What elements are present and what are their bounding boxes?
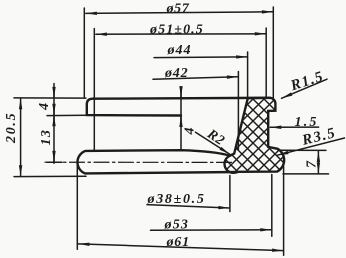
tick 7 bottom: [283, 173, 329, 175]
dimension line 4-13: [53, 84, 55, 164]
dimension line 20.5: [20, 98, 22, 176]
extension line dia51 right: [265, 28, 267, 98]
dimension line dia51: [96, 33, 266, 35]
svg-text:R2: R2: [203, 126, 227, 149]
arrow 4 top: [53, 88, 55, 99]
tick mid left: [47, 114, 87, 116]
arrow 4 inner top: [180, 89, 182, 98]
extension line dia57 right: [272, 7, 274, 98]
tick bottom left: [14, 175, 86, 177]
svg-text:ø51±0.5: ø51±0.5: [149, 23, 204, 38]
svg-text:13: 13: [39, 129, 54, 146]
extension line dia57 left: [83, 8, 85, 98]
dimension line 7: [317, 151, 319, 174]
lower band outline: [77, 150, 237, 173]
tick top left: [14, 97, 86, 99]
arrow 4 inner bottom: [180, 116, 182, 126]
arrow 13 up: [53, 115, 55, 124]
dimension line dia61: [78, 244, 283, 251]
svg-text:20.5: 20.5: [4, 112, 19, 144]
dimension line dia53: [151, 229, 272, 232]
extension line dia61 right: [283, 166, 285, 255]
svg-text:ø38±0.5: ø38±0.5: [147, 192, 206, 207]
svg-text:ø44: ø44: [167, 43, 192, 58]
extension line dia51 left: [93, 29, 95, 151]
svg-text:ø61: ø61: [166, 235, 190, 250]
dimension line dia42: [153, 77, 238, 80]
leader 1.5: [270, 126, 318, 128]
tick 13 bottom: [47, 161, 62, 163]
dimension line dia38: [147, 205, 230, 208]
svg-text:4: 4: [183, 127, 198, 136]
arrow 13 down: [53, 152, 55, 163]
svg-text:ø42: ø42: [164, 66, 188, 81]
extension line dia44 right: [247, 52, 249, 98]
hatched section (wedge and foot): [225, 98, 285, 173]
dimension line dia44: [154, 56, 247, 59]
leader R3.5: [277, 138, 344, 155]
extension line dia38 right: [229, 176, 231, 212]
svg-text:7: 7: [305, 160, 320, 168]
center line: [45, 161, 232, 163]
tick 7 top: [278, 149, 326, 151]
extension line dia42 right: [237, 72, 239, 150]
svg-text:1.5: 1.5: [295, 115, 319, 130]
dimension line dia57: [86, 12, 273, 14]
leader R2: [196, 132, 230, 154]
svg-text:ø53: ø53: [164, 218, 190, 233]
svg-text:R1.5: R1.5: [288, 69, 326, 95]
upper band outline: [87, 98, 270, 116]
extension line dia61 left: [76, 163, 78, 250]
svg-text:ø57: ø57: [166, 1, 190, 16]
svg-text:4: 4: [37, 102, 52, 111]
extension line dia53 right: [271, 175, 273, 237]
leader R1.5: [282, 79, 328, 98]
dimension line 4 inner: [180, 88, 182, 150]
arrow 4 bottom: [53, 107, 55, 115]
